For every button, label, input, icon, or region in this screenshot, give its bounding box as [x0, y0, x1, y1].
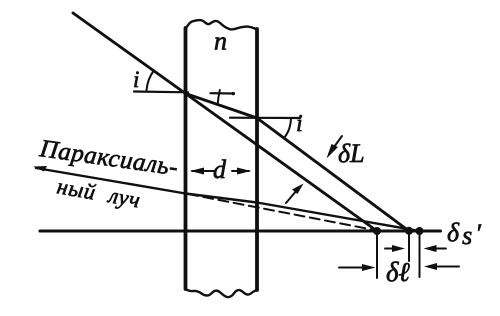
plate bottom torn edge [186, 289, 258, 297]
dashed undeviated paraxial continuation to node A [188, 194, 377, 231]
plate top torn edge [186, 20, 258, 29]
svg-text:i: i [133, 67, 139, 92]
svg-text:i: i [296, 111, 303, 137]
arrowhead at paraxial ray start [33, 166, 47, 172]
delta l left arrow [339, 264, 376, 271]
arc angle i at P2 [285, 118, 292, 138]
witness line from node C [419, 234, 421, 277]
witness line from node B [408, 234, 410, 261]
arc refraction angle at P1 [218, 90, 220, 105]
delta s' left arrow [385, 245, 405, 252]
arc angle i at P1 [147, 71, 154, 91]
delta s' right arrow [424, 245, 447, 252]
svg-text:n: n [214, 27, 227, 56]
witness line from node A [376, 234, 378, 278]
node B marginal image point [405, 227, 413, 235]
normal at P1 (left segment) [134, 90, 188, 93]
optical axis [40, 229, 441, 232]
plate left face [184, 28, 188, 289]
incident ray through plate to node A (undeviated) [73, 13, 377, 231]
dimension d right arrow [232, 168, 251, 175]
dimension d left arrow [190, 168, 214, 175]
plate right face [255, 29, 259, 290]
svg-text:δℓ: δℓ [386, 257, 411, 287]
paraxial exit ray to node C [257, 203, 420, 232]
node C paraxial image point [416, 227, 424, 235]
node A image point [373, 227, 381, 235]
paraxial incident ray [36, 168, 186, 194]
svg-text:δL: δL [338, 139, 365, 168]
normal at P2 [230, 117, 300, 120]
delta l right arrow [424, 263, 459, 270]
paraxial ray inside plate [186, 194, 258, 203]
exit ray P2 to node B [257, 118, 409, 231]
svg-text:δs′: δs′ [447, 218, 481, 250]
normal at P1 (inside segment) [211, 92, 234, 95]
leader arrow for deltaL [327, 136, 343, 159]
svg-text:d: d [213, 155, 227, 184]
leader arrow pointing to undeviated ray [286, 184, 304, 204]
refracted ray P1-P2 [186, 94, 258, 119]
